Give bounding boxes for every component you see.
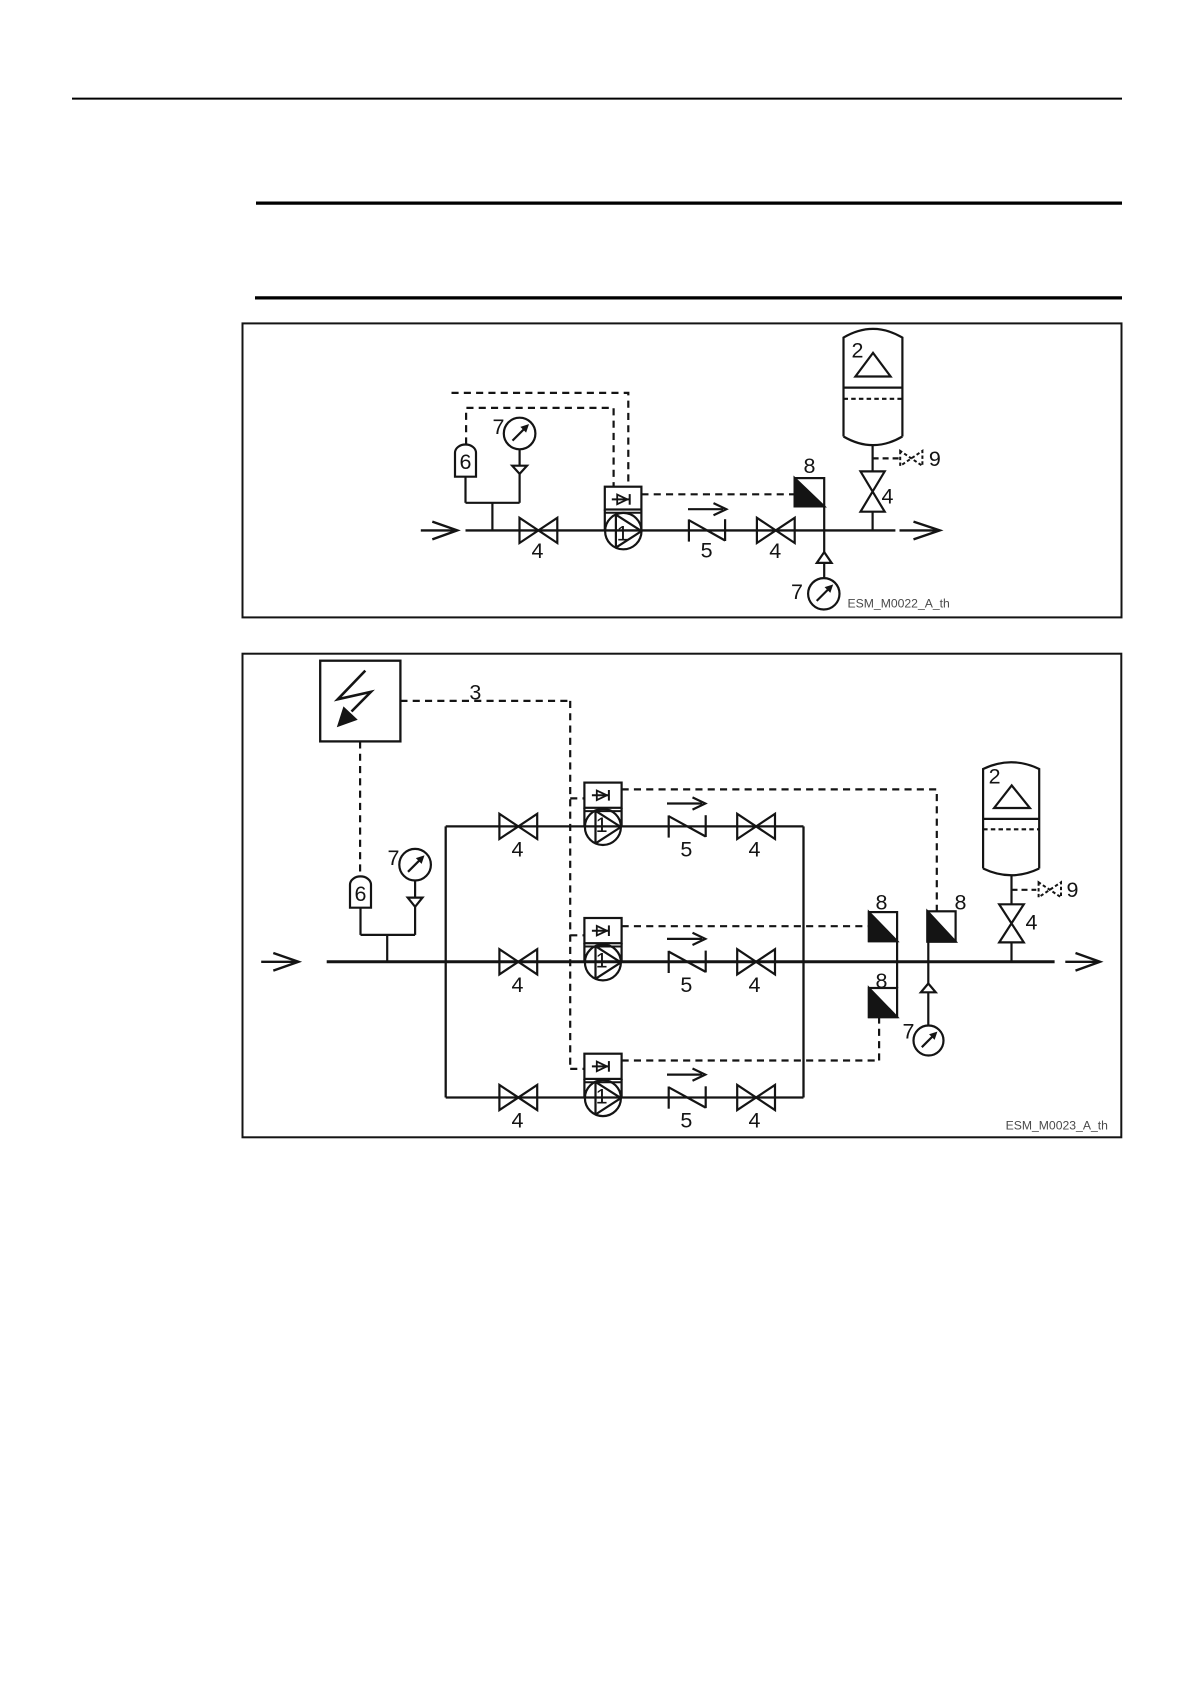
branch drop wire to pipe D1 (466, 477, 520, 531)
label 4 left D1 (532, 539, 544, 563)
DIAGRAM 1 FRAME (243, 323, 1122, 617)
pressure switch 8 D1 (795, 478, 825, 530)
pressure gauge 7 lower D1 (808, 530, 839, 609)
label 5 row3 D2 (680, 1109, 692, 1133)
inlet arrow D1 (421, 522, 458, 540)
svg-text:4: 4 (749, 837, 761, 861)
label 4 row2 right D2 (749, 973, 761, 997)
main pipe D1 (466, 529, 896, 531)
svg-text:5: 5 (680, 838, 692, 862)
sensor dome 6 D1 (455, 445, 476, 477)
label 7 right D2 (903, 1020, 915, 1044)
isolating valve 4 row2 left D2 (499, 949, 537, 974)
label 3 D2 (469, 680, 481, 704)
sensor dome 6 D2 (350, 876, 371, 935)
svg-text:7: 7 (903, 1020, 915, 1044)
control signal dashed row2 D2 (622, 925, 869, 927)
svg-text:4: 4 (512, 973, 524, 997)
label 4 row1 right D2 (749, 837, 761, 861)
svg-text:ESM_M0023_A_th: ESM_M0023_A_th (1006, 1119, 1108, 1133)
DIAGRAM 2 FRAME (243, 654, 1122, 1138)
label 1 pump D1 (617, 521, 629, 545)
pump 1 row2 D2 (584, 918, 621, 980)
control cabinet 3 D2 (320, 661, 400, 742)
control signal dashed A D1 (452, 393, 629, 487)
left manifold wire D2 (445, 826, 447, 1097)
label 4 tank valve D2 (1026, 911, 1038, 935)
svg-text:4: 4 (769, 539, 781, 563)
svg-text:2: 2 (989, 765, 1001, 789)
svg-text:4: 4 (1026, 911, 1038, 935)
check valve 5 row1 D2 (667, 797, 706, 837)
diaphragm tank 2 D2 (983, 762, 1039, 875)
lightning symbol D2 (338, 671, 371, 727)
svg-text:8: 8 (955, 891, 967, 915)
isolating valve 4 right D1 (757, 518, 795, 543)
diaphragm tank 2 D1 (844, 329, 903, 445)
svg-text:7: 7 (791, 580, 803, 604)
section rule lower (255, 296, 1122, 299)
svg-text:8: 8 (804, 454, 816, 478)
inlet arrow D2 (261, 953, 298, 971)
pump 1 row1 D2 (584, 783, 621, 845)
svg-text:2: 2 (852, 338, 864, 362)
svg-text:1: 1 (617, 521, 629, 545)
svg-text:8: 8 (876, 891, 888, 915)
outlet arrow D2 (1065, 953, 1100, 971)
label 4 row3 left D2 (512, 1109, 524, 1133)
label 2 tank D2 (989, 765, 1001, 789)
control signal dashed row3 D2 (622, 1017, 880, 1060)
label 9 D2 (1067, 878, 1079, 902)
pump 1 row3 D2 (584, 1054, 621, 1116)
control signal dashed B D1 (466, 408, 613, 487)
svg-text:8: 8 (876, 969, 888, 993)
top header rule (72, 98, 1122, 100)
pressure switch 8c D2 (869, 988, 897, 1017)
isolating valve 4 row2 right D2 (737, 949, 775, 974)
svg-text:6: 6 (460, 450, 472, 474)
label 1 pump row2 D2 (596, 949, 608, 973)
svg-text:4: 4 (512, 1109, 524, 1133)
label 1 pump row1 D2 (596, 813, 608, 837)
label 1 pump row3 D2 (596, 1084, 608, 1108)
check valve 5 row3 D2 (667, 1069, 706, 1109)
isolating valve 4 left D1 (520, 518, 558, 543)
branch row1 pipe D2 (446, 825, 804, 827)
svg-text:7: 7 (388, 846, 400, 870)
isolating valve 4 row1 left D2 (499, 814, 537, 839)
label 7 left D2 (388, 846, 400, 870)
label 8 D1 (804, 454, 816, 478)
svg-text:6: 6 (355, 882, 367, 906)
svg-text:4: 4 (512, 837, 524, 861)
drain valve 9 D1 (873, 451, 923, 466)
pump 1 D1 (605, 487, 642, 550)
main pipe D2 (327, 960, 1055, 963)
outlet arrow D1 (900, 522, 940, 540)
svg-text:1: 1 (596, 813, 608, 837)
label 6 D2 (355, 882, 367, 906)
label 9 D1 (929, 447, 941, 471)
control signal dashed row1 D2 (622, 789, 937, 911)
svg-text:5: 5 (701, 539, 713, 563)
label 2 tank D1 (852, 338, 864, 362)
svg-text:5: 5 (680, 973, 692, 997)
label 7 upper D1 (493, 415, 505, 439)
svg-text:4: 4 (882, 485, 894, 509)
svg-text:5: 5 (680, 1109, 692, 1133)
svg-text:3: 3 (469, 680, 481, 704)
tank isolating valve 4 D2 (999, 904, 1024, 962)
control signal dashed C D1 (641, 493, 794, 495)
pressure switch 8a D2 (869, 912, 897, 988)
label 4 row2 left D2 (512, 973, 524, 997)
pressure gauge 7 left D2 (399, 849, 431, 935)
label 4 right D1 (769, 539, 781, 563)
section rule upper (256, 202, 1122, 205)
tank isolating valve 4 D1 (861, 445, 885, 530)
svg-text:ESM_M0022_A_th: ESM_M0022_A_th (848, 597, 950, 611)
svg-text:1: 1 (596, 949, 608, 973)
label 5 row2 D2 (680, 973, 692, 997)
control signal dashed 3 D2 (400, 701, 584, 1069)
branch row3 pipe D2 (446, 1096, 804, 1098)
isolating valve 4 row3 right D2 (737, 1085, 775, 1110)
label 8a D2 (876, 891, 888, 915)
svg-text:1: 1 (596, 1084, 608, 1108)
pressure switch 8b D2 (927, 911, 955, 941)
label 8b D2 (955, 891, 967, 915)
label 5 D1 (701, 539, 713, 563)
label 4 row3 right D2 (749, 1109, 761, 1133)
isolating valve 4 row1 right D2 (737, 814, 775, 839)
label 8c D2 (876, 969, 888, 993)
svg-text:4: 4 (749, 1109, 761, 1133)
svg-text:7: 7 (493, 415, 505, 439)
pressure gauge 7 right D2 (914, 942, 944, 1056)
check valve 5 row2 D2 (667, 933, 706, 973)
caption D2 (1006, 1119, 1108, 1133)
label 5 row1 D2 (680, 838, 692, 862)
svg-text:9: 9 (929, 447, 941, 471)
label 4 tank valve D1 (882, 485, 894, 509)
check valve 5 D1 (688, 503, 726, 541)
isolating valve 4 row3 left D2 (499, 1085, 537, 1110)
branch connector wire D2 (361, 935, 416, 962)
right manifold wire D2 (802, 826, 804, 1097)
svg-text:4: 4 (532, 539, 544, 563)
label 6 D1 (460, 450, 472, 474)
drain valve 9 D2 (1012, 875, 1062, 904)
caption D1 (848, 597, 950, 611)
svg-text:4: 4 (749, 973, 761, 997)
label 7 lower D1 (791, 580, 803, 604)
label 4 row1 left D2 (512, 837, 524, 861)
pressure gauge 7 upper D1 (504, 418, 536, 503)
control signal to sensor dome D2 (359, 741, 361, 876)
svg-text:9: 9 (1067, 878, 1079, 902)
